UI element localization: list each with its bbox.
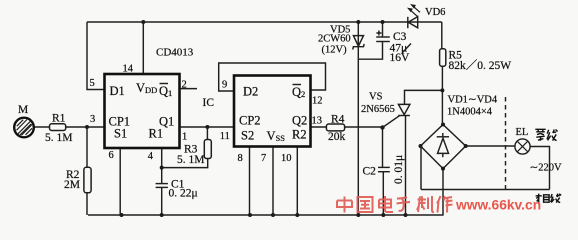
svg-text:0. 01μ: 0. 01μ — [393, 155, 405, 184]
svg-text:2: 2 — [182, 80, 187, 91]
svg-text:Q1: Q1 — [159, 115, 174, 129]
svg-text:9: 9 — [222, 80, 227, 91]
svg-text:3: 3 — [90, 114, 95, 125]
svg-text:82k／0. 25W: 82k／0. 25W — [449, 59, 512, 72]
svg-text:(12V): (12V) — [322, 45, 348, 56]
svg-text:VS: VS — [369, 92, 383, 103]
svg-text:2M: 2M — [64, 179, 80, 191]
svg-text:2N6565: 2N6565 — [361, 104, 395, 115]
svg-text:D2: D2 — [243, 85, 258, 99]
svg-text:M: M — [18, 104, 28, 116]
svg-text:14: 14 — [123, 64, 134, 75]
svg-text:4: 4 — [148, 151, 154, 162]
svg-text:16V: 16V — [390, 52, 411, 64]
svg-text:Q2: Q2 — [292, 114, 307, 128]
svg-text:C2: C2 — [363, 166, 377, 178]
svg-text:S1: S1 — [114, 127, 127, 141]
svg-text:7: 7 — [261, 153, 266, 164]
svg-text:11: 11 — [220, 131, 230, 142]
svg-text:R1: R1 — [149, 127, 164, 141]
svg-text:∼220V: ∼220V — [530, 163, 563, 174]
svg-text:5: 5 — [90, 78, 95, 89]
svg-text:R2: R2 — [292, 128, 307, 142]
svg-text:R1: R1 — [52, 113, 66, 125]
svg-text:CD4013: CD4013 — [156, 47, 194, 59]
svg-text:5. 1M: 5. 1M — [45, 132, 72, 144]
svg-text:EL: EL — [516, 127, 529, 138]
svg-text:C3: C3 — [393, 31, 407, 43]
svg-text:www.66kv.cn: www.66kv.cn — [455, 198, 541, 213]
svg-text:VD6: VD6 — [425, 7, 445, 18]
svg-text:20k: 20k — [328, 131, 346, 143]
svg-text:6: 6 — [109, 150, 114, 161]
svg-text:D1: D1 — [110, 84, 125, 98]
svg-text:2CW60: 2CW60 — [318, 34, 351, 45]
svg-text:13: 13 — [312, 116, 323, 127]
svg-text:1: 1 — [182, 132, 187, 143]
svg-text:10: 10 — [281, 153, 292, 164]
svg-text:1N4004×4: 1N4004×4 — [447, 107, 493, 118]
svg-text:0. 22μ: 0. 22μ — [169, 188, 198, 200]
svg-text:R4: R4 — [331, 114, 345, 126]
svg-text:CP2: CP2 — [239, 114, 261, 128]
svg-text:8: 8 — [238, 153, 243, 164]
svg-text:12: 12 — [312, 96, 323, 107]
svg-text:VD1∼VD4: VD1∼VD4 — [448, 95, 498, 106]
svg-text:S2: S2 — [241, 129, 254, 143]
svg-text:IC: IC — [203, 97, 215, 109]
svg-text:5. 1M: 5. 1M — [177, 154, 204, 166]
